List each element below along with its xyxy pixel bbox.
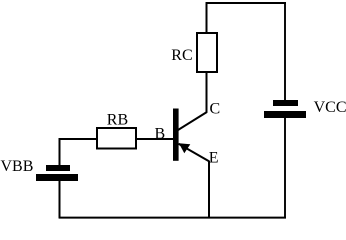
transistor Q1 emitter arrow	[179, 143, 190, 153]
wire: RC bottom to collector	[206, 73, 208, 113]
battery VBB short plate	[46, 165, 70, 171]
wire: RB left, corner down to VBB	[60, 139, 97, 166]
svg-text:E: E	[209, 150, 219, 167]
svg-text:B: B	[155, 126, 166, 143]
svg-text:RB: RB	[107, 112, 128, 129]
wire: top horizontal	[206, 2, 286, 4]
resistor RC	[197, 33, 217, 72]
wire: right vertical (top to VCC)	[284, 2, 286, 100]
svg-text:RC: RC	[171, 47, 192, 64]
wire: VBB minus down to bottom rail	[59, 181, 61, 218]
wire: base (RB to transistor)	[137, 138, 174, 140]
wire: bottom rail	[59, 217, 286, 219]
transistor Q1 emitter line	[179, 144, 210, 162]
battery VCC long plate	[264, 111, 306, 118]
wire: top-left corner down to RC	[206, 2, 208, 32]
battery VBB long plate	[36, 174, 78, 181]
svg-text:VBB: VBB	[1, 158, 34, 175]
transistor Q1 base bar	[173, 109, 179, 161]
svg-text:C: C	[210, 101, 221, 118]
wire: emitter down to bottom rail	[208, 161, 210, 218]
battery VCC short plate	[273, 100, 298, 106]
wire: VCC minus down to bottom rail	[284, 118, 286, 219]
svg-text:VCC: VCC	[314, 99, 346, 116]
transistor Q1 collector line	[178, 112, 207, 130]
resistor RB	[97, 128, 136, 149]
